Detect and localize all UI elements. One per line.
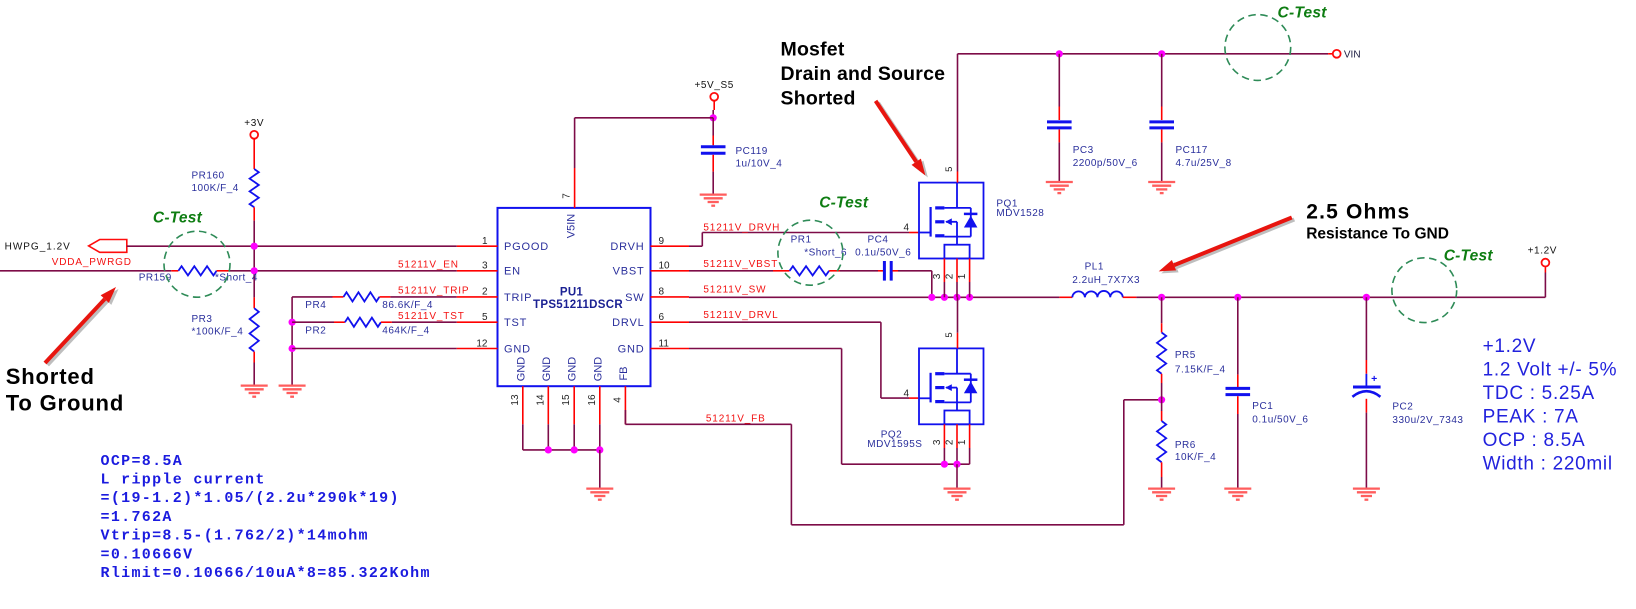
svg-text:=1.762A: =1.762A [101,509,173,526]
svg-text:Shorted: Shorted [781,88,856,110]
svg-text:PR160: PR160 [192,170,225,181]
svg-text:2.5 Ohms: 2.5 Ohms [1306,201,1410,224]
svg-text:4.7u/25V_8: 4.7u/25V_8 [1176,158,1232,169]
svg-text:*Short_6: *Short_6 [804,248,847,259]
svg-text:86.6K/F_4: 86.6K/F_4 [382,300,433,311]
svg-text:PEAK : 7A: PEAK : 7A [1483,407,1579,428]
svg-text:OCP : 8.5A: OCP : 8.5A [1483,430,1586,451]
svg-text:PR6: PR6 [1175,440,1196,451]
svg-text:7.15K/F_4: 7.15K/F_4 [1175,364,1226,375]
svg-text:464K/F_4: 464K/F_4 [382,325,429,336]
svg-text:51211V_DRVH: 51211V_DRVH [703,222,780,233]
svg-text:DRVH: DRVH [610,241,644,253]
svg-text:2.2uH_7X7X3: 2.2uH_7X7X3 [1072,275,1140,286]
svg-text:4: 4 [903,388,909,399]
svg-text:Resistance To GND: Resistance To GND [1306,225,1449,242]
svg-text:VDDA_PWRGD: VDDA_PWRGD [52,257,132,268]
svg-text:C-Test: C-Test [1278,5,1328,22]
svg-text:GND: GND [541,357,553,382]
svg-text:*100K/F_4: *100K/F_4 [192,326,244,337]
svg-text:TST: TST [504,317,527,329]
svg-text:10: 10 [659,261,671,272]
svg-text:0.1u/50V_6: 0.1u/50V_6 [855,248,911,259]
svg-text:2: 2 [945,439,956,445]
svg-text:To Ground: To Ground [6,390,124,415]
svg-text:5: 5 [482,312,488,323]
svg-text:SW: SW [625,292,644,304]
svg-text:2: 2 [945,273,956,279]
svg-text:14: 14 [535,394,546,406]
svg-text:Shorted: Shorted [6,364,95,389]
svg-text:Width : 220mil: Width : 220mil [1483,454,1613,475]
svg-text:TRIP: TRIP [504,292,532,304]
svg-text:11: 11 [659,338,670,349]
svg-text:PC1: PC1 [1252,401,1273,412]
svg-text:1: 1 [957,273,968,279]
svg-text:PC119: PC119 [736,146,768,157]
svg-text:+3V: +3V [244,118,264,129]
svg-text:PR2: PR2 [305,325,326,336]
svg-text:3: 3 [932,439,943,445]
svg-text:1u/10V_4: 1u/10V_4 [736,159,783,170]
svg-text:5: 5 [944,167,955,172]
svg-text:1: 1 [957,439,968,445]
svg-text:PU1: PU1 [560,287,584,299]
svg-text:7: 7 [562,193,573,199]
svg-text:V5IN: V5IN [566,214,578,239]
svg-text:PC2: PC2 [1392,402,1413,413]
svg-text:*Short_4: *Short_4 [215,272,258,283]
svg-text:Mosfet: Mosfet [781,39,845,61]
svg-text:FB: FB [618,366,630,380]
svg-text:4: 4 [612,397,623,403]
svg-text:51211V_FB: 51211V_FB [706,414,766,425]
svg-text:51211V_TST: 51211V_TST [398,311,465,322]
svg-text:PC4: PC4 [868,234,889,245]
svg-text:0.1u/50V_6: 0.1u/50V_6 [1252,415,1308,426]
svg-text:2200p/50V_6: 2200p/50V_6 [1073,158,1138,169]
svg-text:+1.2V: +1.2V [1528,246,1557,257]
svg-text:3: 3 [932,273,943,279]
svg-text:PR5: PR5 [1175,350,1196,361]
svg-text:HWPG_1.2V: HWPG_1.2V [5,242,71,253]
svg-text:3: 3 [482,261,488,272]
svg-text:8: 8 [659,287,665,298]
svg-text:+5V_S5: +5V_S5 [694,80,733,91]
svg-text:330u/2V_7343: 330u/2V_7343 [1392,415,1463,426]
svg-text:PGOOD: PGOOD [504,241,549,253]
svg-text:C-Test: C-Test [819,194,869,211]
svg-text:16: 16 [587,394,598,406]
svg-text:Rlimit=0.10666/10uA*8=85.322Ko: Rlimit=0.10666/10uA*8=85.322Kohm [101,565,431,582]
svg-text:GND: GND [504,343,531,355]
svg-text:Drain and Source: Drain and Source [781,63,946,85]
svg-text:100K/F_4: 100K/F_4 [192,183,239,194]
svg-text:PR3: PR3 [192,314,213,325]
svg-text:VBST: VBST [613,266,645,278]
svg-text:+: + [1371,373,1377,385]
svg-text:C-Test: C-Test [1444,248,1494,265]
svg-text:PC117: PC117 [1176,145,1208,156]
svg-text:PL1: PL1 [1085,262,1104,273]
svg-text:4: 4 [903,223,909,234]
svg-text:GND: GND [515,357,527,382]
svg-text:15: 15 [561,394,572,406]
svg-text:PR4: PR4 [305,300,326,311]
svg-text:10K/F_4: 10K/F_4 [1175,452,1216,463]
svg-text:MDV1528: MDV1528 [996,208,1044,219]
svg-text:TDC : 5.25A: TDC : 5.25A [1483,383,1595,404]
svg-text:2: 2 [482,287,488,298]
svg-text:EN: EN [504,266,521,278]
svg-text:+1.2V: +1.2V [1483,336,1537,357]
svg-text:MDV1595S: MDV1595S [867,439,922,450]
svg-text:1.2 Volt +/- 5%: 1.2 Volt +/- 5% [1483,360,1618,381]
svg-text:12: 12 [476,338,488,349]
svg-text:C-Test: C-Test [153,210,203,227]
svg-text:L ripple current: L ripple current [101,472,266,489]
svg-text:DRVL: DRVL [612,317,644,329]
svg-text:GND: GND [592,357,604,382]
svg-text:6: 6 [659,312,665,323]
svg-text:GND: GND [618,343,645,355]
svg-text:13: 13 [510,394,521,406]
svg-text:=(19-1.2)*1.05/(2.2u*290k*19): =(19-1.2)*1.05/(2.2u*290k*19) [101,490,400,507]
svg-text:9: 9 [659,236,665,247]
svg-text:PR1: PR1 [791,234,812,245]
svg-text:=0.10666V: =0.10666V [101,546,194,563]
svg-text:51211V_DRVL: 51211V_DRVL [703,310,778,321]
svg-text:5: 5 [944,332,955,337]
svg-text:Vtrip=8.5-(1.762/2)*14mohm: Vtrip=8.5-(1.762/2)*14mohm [101,528,369,545]
svg-text:51211V_EN: 51211V_EN [398,260,459,271]
svg-text:1: 1 [482,236,488,247]
svg-text:TPS51211DSCR: TPS51211DSCR [533,299,623,311]
svg-text:51211V_SW: 51211V_SW [703,285,766,296]
svg-text:GND: GND [567,357,579,382]
svg-text:OCP=8.5A: OCP=8.5A [101,453,184,470]
svg-text:51211V_VBST: 51211V_VBST [703,259,778,270]
svg-text:51211V_TRIP: 51211V_TRIP [398,286,469,297]
svg-text:VIN: VIN [1344,49,1361,60]
svg-text:PC3: PC3 [1073,145,1094,156]
